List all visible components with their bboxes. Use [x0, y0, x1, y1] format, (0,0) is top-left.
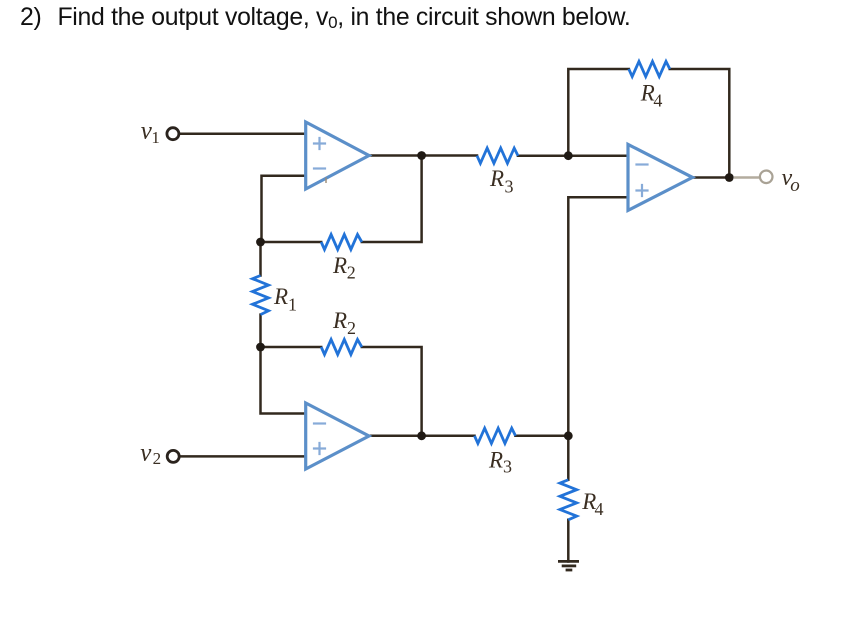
svg-text:3: 3 — [503, 457, 512, 477]
svg-text:2: 2 — [347, 262, 356, 282]
svg-text:1: 1 — [288, 294, 297, 314]
svg-text:v: v — [140, 440, 152, 467]
svg-text:o: o — [790, 175, 800, 196]
svg-text:R: R — [489, 166, 504, 191]
svg-text:4: 4 — [595, 499, 604, 519]
svg-text:R: R — [332, 253, 347, 278]
svg-text:2: 2 — [347, 318, 356, 338]
svg-text:R: R — [273, 284, 288, 309]
svg-text:2: 2 — [153, 449, 162, 468]
svg-text:3: 3 — [505, 177, 514, 197]
svg-text:1: 1 — [151, 128, 160, 147]
svg-text:R: R — [332, 308, 347, 333]
svg-text:R: R — [488, 448, 503, 473]
svg-text:4: 4 — [653, 91, 662, 111]
